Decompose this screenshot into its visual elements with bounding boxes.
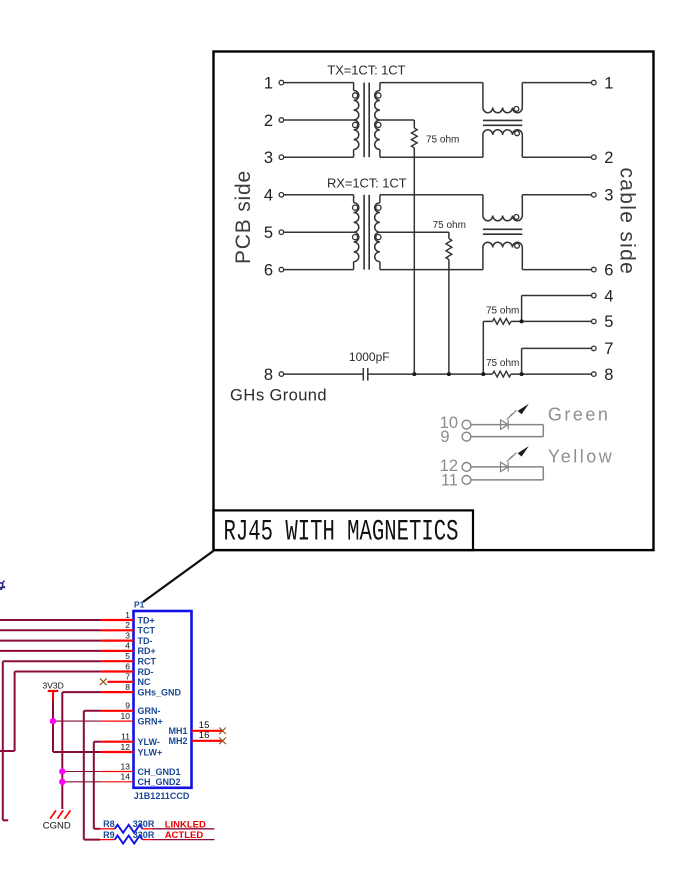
- svg-text:YLW+: YLW+: [138, 747, 163, 757]
- svg-text:9: 9: [125, 701, 130, 711]
- svg-text:75 ohm: 75 ohm: [426, 135, 459, 146]
- svg-text:6: 6: [125, 661, 130, 671]
- svg-text:RD+: RD+: [138, 646, 156, 656]
- svg-text:1: 1: [604, 74, 613, 92]
- svg-text:CH_GND1: CH_GND1: [138, 767, 181, 777]
- svg-text:16: 16: [199, 730, 210, 741]
- svg-text:13: 13: [121, 761, 131, 771]
- svg-text:11: 11: [441, 471, 458, 489]
- svg-text:6: 6: [264, 261, 273, 279]
- svg-text:8: 8: [264, 366, 273, 384]
- svg-text:6: 6: [604, 261, 613, 279]
- svg-text:GHs_GND: GHs_GND: [138, 687, 182, 697]
- svg-text:cable side: cable side: [616, 168, 639, 276]
- svg-text:4: 4: [264, 187, 273, 205]
- svg-text:Yellow: Yellow: [548, 447, 614, 467]
- svg-text:11: 11: [121, 732, 130, 742]
- svg-text:330R: 330R: [133, 830, 155, 840]
- svg-text:J1B1211CCD: J1B1211CCD: [134, 791, 190, 801]
- svg-text:8: 8: [125, 682, 130, 692]
- svg-text:ACTLED: ACTLED: [165, 830, 204, 841]
- svg-text:RX=1CT: 1CT: RX=1CT: 1CT: [327, 175, 407, 190]
- svg-text:4: 4: [125, 641, 130, 651]
- svg-text:2: 2: [264, 112, 273, 130]
- svg-text:CGND: CGND: [43, 821, 71, 832]
- svg-text:MH1: MH1: [168, 726, 187, 736]
- svg-text:P1: P1: [134, 600, 145, 610]
- svg-text:3V3D: 3V3D: [43, 680, 64, 690]
- svg-text:TX=1CT: 1CT: TX=1CT: 1CT: [327, 62, 405, 77]
- svg-text:LINKLED: LINKLED: [165, 819, 206, 830]
- svg-text:TD-: TD-: [138, 636, 153, 646]
- svg-text:GRN+: GRN+: [138, 716, 163, 726]
- svg-text:TCT: TCT: [138, 626, 156, 636]
- svg-text:75 ohm: 75 ohm: [433, 220, 466, 231]
- svg-text:GHs: GHs: [230, 386, 265, 404]
- svg-text:330R: 330R: [133, 819, 155, 829]
- svg-text:75 ohm: 75 ohm: [486, 358, 519, 369]
- svg-text:RJ45 WITH MAGNETICS: RJ45 WITH MAGNETICS: [224, 515, 459, 549]
- svg-text:YLW-: YLW-: [138, 737, 160, 747]
- svg-text:14: 14: [121, 772, 131, 782]
- svg-text:1: 1: [264, 74, 273, 92]
- svg-text:CH_GND2: CH_GND2: [138, 777, 181, 787]
- svg-text:7: 7: [604, 340, 613, 358]
- svg-text:5: 5: [604, 313, 613, 331]
- svg-text:75 ohm: 75 ohm: [486, 306, 519, 317]
- svg-text:Green: Green: [548, 404, 611, 424]
- svg-text:MH2: MH2: [168, 736, 187, 746]
- svg-text:7: 7: [125, 672, 130, 682]
- svg-text:RCT: RCT: [138, 657, 157, 667]
- svg-text:2: 2: [604, 149, 613, 167]
- svg-text:NC: NC: [138, 677, 151, 687]
- svg-text:3: 3: [125, 630, 130, 640]
- svg-text:9: 9: [440, 428, 449, 446]
- svg-text:10: 10: [121, 711, 131, 721]
- svg-text:PCB side: PCB side: [232, 170, 255, 264]
- svg-text:GRN-: GRN-: [138, 706, 161, 716]
- svg-text:12: 12: [121, 742, 131, 752]
- svg-text:TD+: TD+: [138, 615, 155, 625]
- svg-text:5: 5: [264, 224, 273, 242]
- svg-text:1: 1: [125, 610, 130, 620]
- svg-text:Ground: Ground: [270, 386, 327, 404]
- svg-text:3: 3: [264, 149, 273, 167]
- svg-text:4: 4: [604, 287, 613, 305]
- svg-text:R8: R8: [103, 819, 115, 829]
- svg-text:2: 2: [125, 620, 130, 630]
- svg-text:RD-: RD-: [138, 667, 154, 677]
- svg-text:3: 3: [604, 187, 613, 205]
- svg-text:8: 8: [604, 366, 613, 384]
- svg-text:R9: R9: [103, 830, 115, 840]
- svg-text:5: 5: [125, 651, 130, 661]
- svg-text:1000pF: 1000pF: [349, 350, 390, 364]
